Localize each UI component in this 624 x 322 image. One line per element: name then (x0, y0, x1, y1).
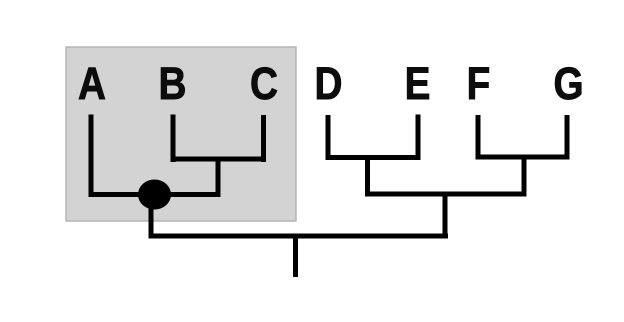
bracket (ABC)+(DEFG) bottom (horizontal) (149, 234, 449, 239)
svg-text:D: D (315, 58, 343, 108)
branch G (vertical stem) (565, 115, 570, 160)
svg-text:F: F (467, 58, 491, 108)
svg-text:A: A (78, 58, 106, 108)
stem of clade DEFG (vertical) (443, 192, 448, 239)
stem of clade ABC (vertical) (149, 195, 154, 239)
branch B (vertical stem) (171, 115, 176, 163)
stem of clade BC (vertical) (216, 157, 221, 198)
branch D (vertical stem) (326, 115, 331, 160)
bracket D-E (horizontal) (326, 155, 421, 160)
highlight box (clade A-C) (66, 47, 296, 221)
bracket (DE)+(FG) (horizontal) (365, 192, 527, 197)
svg-text:C: C (250, 58, 278, 108)
stem of clade FG (vertical) (522, 155, 527, 197)
root stem (vertical) (293, 234, 298, 278)
bracket F-G (horizontal) (476, 155, 570, 160)
bracket B-C (horizontal) (171, 157, 267, 162)
stem of clade DE (vertical) (365, 155, 370, 197)
branch E (vertical stem) (416, 115, 421, 161)
svg-text:B: B (159, 58, 187, 108)
svg-text:G: G (553, 58, 583, 108)
bracket A+(BC) (horizontal) (89, 192, 221, 197)
branch A (vertical stem) (89, 115, 94, 198)
branch F (vertical stem) (476, 115, 481, 160)
ancestral node circle (138, 180, 171, 210)
svg-text:E: E (405, 58, 431, 108)
branch C (vertical stem) (261, 115, 266, 162)
